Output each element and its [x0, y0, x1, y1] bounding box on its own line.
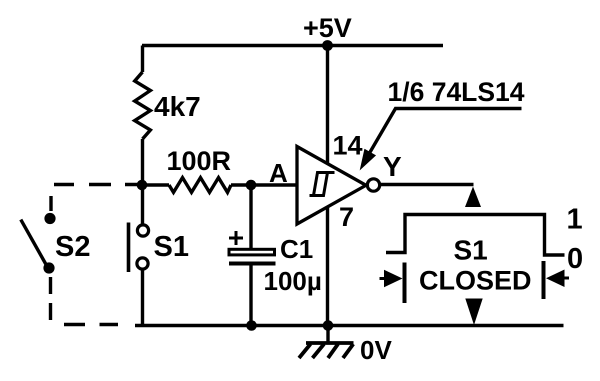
hysteresis symbol: [310, 173, 335, 196]
pushbutton S1 bar: [127, 223, 131, 273]
wire C1 top lead: [249, 185, 252, 249]
leader arrowhead: [361, 150, 376, 170]
node +5V junction dot: [322, 40, 333, 51]
svg-text:A: A: [269, 158, 288, 188]
capacitor C1 top plate: [229, 249, 275, 255]
svg-text:1: 1: [567, 204, 583, 236]
waveform up arrow: [465, 187, 481, 208]
wire C1 bottom lead: [249, 264, 252, 326]
svg-text:14: 14: [333, 131, 363, 161]
svg-text:Y: Y: [383, 151, 402, 182]
waveform down arrow: [465, 299, 482, 326]
wire left vertical upper: [141, 46, 144, 73]
dashed wire top: [54, 183, 140, 186]
wire pin 7 vertical: [326, 208, 329, 326]
wire left vertical middle: [141, 139, 144, 224]
node dashed-line junction dot: [137, 180, 148, 191]
wire 0V bottom rail: [135, 324, 564, 328]
resistor R 100R zigzag: [169, 178, 231, 193]
svg-text:S1: S1: [454, 235, 488, 266]
svg-text:0: 0: [567, 243, 583, 275]
waveform right arrow: [565, 277, 570, 280]
wire output Y: [381, 183, 474, 186]
svg-text:S2: S2: [55, 231, 90, 263]
wire node A to gate input: [231, 183, 297, 186]
switch S2 bottom contact: [43, 262, 54, 273]
pushbutton S1 top contact: [137, 225, 148, 236]
waveform left measure bar: [403, 263, 407, 304]
capacitor C1 bottom plate: [229, 262, 276, 266]
svg-text:7: 7: [339, 202, 354, 232]
svg-text:1/6 74LS14: 1/6 74LS14: [388, 77, 525, 107]
dashed wire left side: [49, 196, 53, 320]
svg-text:0V: 0V: [360, 335, 392, 365]
switch S2 top contact: [44, 213, 55, 224]
wire pin 14 vertical: [326, 46, 329, 164]
leader line 1/6 74LS14: [366, 109, 522, 160]
wire ground stub: [326, 326, 329, 343]
wire +5V top rail: [142, 44, 443, 48]
svg-text:4k7: 4k7: [154, 91, 201, 122]
node A junction dot: [246, 180, 257, 191]
svg-text:100µ: 100µ: [264, 266, 322, 296]
dashed wire bottom: [64, 323, 118, 326]
switch S2 arm: [21, 220, 48, 268]
svg-text:CLOSED: CLOSED: [419, 266, 532, 296]
pushbutton S1 bottom contact: [137, 258, 148, 269]
node C1 bottom junction dot: [246, 320, 257, 331]
svg-text:+5V: +5V: [303, 13, 352, 43]
svg-text:S1: S1: [154, 231, 189, 263]
op-amp U1 Schmitt inverter triangle: [297, 147, 366, 225]
svg-text:C1: C1: [280, 234, 313, 264]
waveform pulse trace: [386, 215, 565, 256]
capacitor C1 polarity plus: [229, 231, 243, 245]
wire left vertical lower: [141, 271, 144, 326]
node ground junction dot: [323, 320, 334, 331]
inverter output bubble: [367, 179, 379, 191]
waveform right measure bar: [542, 261, 546, 299]
waveform left arrow: [380, 277, 385, 280]
resistor R 4k7 zigzag: [135, 72, 151, 139]
svg-text:100R: 100R: [167, 146, 232, 176]
wire node line left stub: [143, 183, 170, 186]
ground symbol: [299, 343, 354, 358]
